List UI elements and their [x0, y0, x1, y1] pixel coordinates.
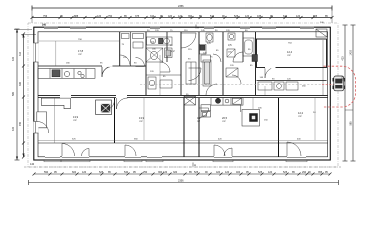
svg-text:120: 120	[296, 15, 301, 18]
svg-text:m²: m²	[79, 53, 82, 56]
svg-text:510: 510	[210, 15, 215, 18]
svg-text:525: 525	[258, 171, 263, 174]
svg-text:888: 888	[74, 15, 79, 18]
svg-text:585: 585	[350, 121, 353, 126]
svg-text:525: 525	[99, 171, 104, 174]
svg-text:525: 525	[283, 171, 288, 174]
svg-text:310: 310	[150, 15, 155, 18]
svg-text:2356: 2356	[178, 180, 184, 183]
svg-text:120: 120	[163, 171, 168, 174]
svg-text:420: 420	[342, 56, 345, 61]
svg-text:120: 120	[178, 15, 183, 18]
svg-text:640: 640	[283, 15, 288, 18]
svg-text:420: 420	[216, 171, 221, 174]
svg-text:120: 120	[268, 171, 273, 174]
svg-text:375: 375	[135, 15, 140, 18]
svg-text:m²: m²	[223, 120, 226, 123]
svg-text:585: 585	[12, 91, 15, 96]
svg-text:455: 455	[19, 121, 22, 126]
svg-text:655: 655	[313, 15, 318, 18]
svg-text:120: 120	[97, 15, 102, 18]
svg-text:400: 400	[236, 171, 241, 174]
svg-text:1420: 1420	[350, 50, 353, 56]
svg-text:420: 420	[12, 126, 15, 131]
svg-text:m²: m²	[74, 119, 77, 122]
svg-text:525: 525	[234, 15, 239, 18]
svg-text:120: 120	[82, 171, 87, 174]
svg-text:m²: m²	[140, 120, 143, 123]
svg-text:290: 290	[302, 171, 307, 174]
svg-text:A: A	[197, 26, 199, 30]
svg-text:140: 140	[30, 163, 35, 166]
svg-text:750: 750	[108, 15, 113, 18]
svg-text:3,5: 3,5	[228, 43, 232, 47]
svg-text:600: 600	[72, 171, 77, 174]
svg-text:540: 540	[124, 171, 129, 174]
svg-text:756: 756	[43, 15, 48, 18]
svg-text:4,6: 4,6	[207, 41, 211, 45]
svg-text:360: 360	[158, 171, 163, 174]
svg-text:390: 390	[188, 15, 193, 18]
svg-text:320: 320	[173, 171, 178, 174]
svg-text:420: 420	[12, 56, 15, 61]
svg-text:3,1: 3,1	[151, 40, 155, 44]
svg-text:120: 120	[225, 171, 230, 174]
svg-text:590: 590	[44, 171, 49, 174]
svg-text:250: 250	[143, 171, 148, 174]
svg-text:850: 850	[342, 76, 345, 81]
svg-text:120: 120	[245, 15, 250, 18]
svg-text:525: 525	[194, 171, 199, 174]
svg-text:420: 420	[168, 15, 173, 18]
svg-text:m²: m²	[197, 120, 200, 123]
svg-text:2,2: 2,2	[171, 49, 175, 53]
svg-text:300: 300	[19, 81, 22, 86]
svg-text:435: 435	[257, 15, 262, 18]
svg-text:A: A	[194, 163, 196, 167]
svg-text:2356: 2356	[178, 5, 184, 8]
svg-text:m²: m²	[288, 54, 291, 57]
svg-text:355: 355	[318, 171, 323, 174]
svg-text:310: 310	[19, 51, 22, 56]
svg-text:m²: m²	[299, 115, 302, 118]
